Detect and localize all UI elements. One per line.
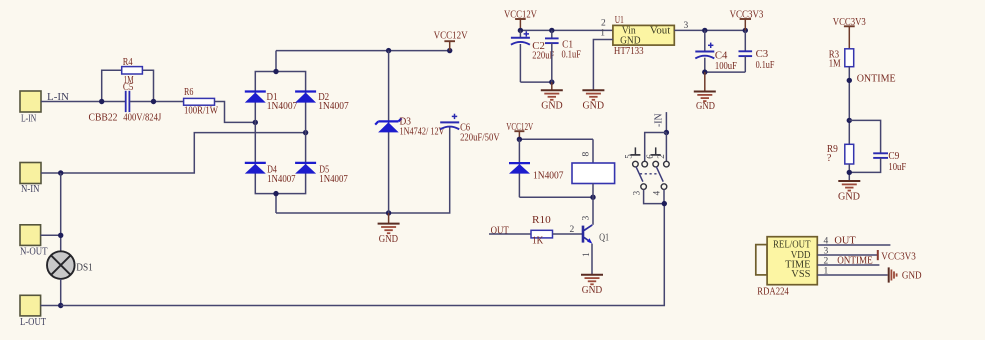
ground at C4 <box>694 72 716 112</box>
junction C1 bottom <box>549 79 554 84</box>
wire D3 branch <box>388 51 390 213</box>
svg-text:L-OUT: L-OUT <box>20 317 46 328</box>
contact circle pin 5 <box>633 161 639 167</box>
svg-text:C5: C5 <box>123 82 133 93</box>
ground at C1 C2 <box>541 82 563 112</box>
wire C9 bottom branch <box>849 158 880 173</box>
junction -IN node <box>664 130 669 135</box>
junction C6 top <box>447 48 452 53</box>
capacitor C1 <box>545 30 581 82</box>
junction bottom bus GND <box>386 210 391 215</box>
wire bottom bus <box>276 127 450 213</box>
wire N-IN to bridge right node <box>41 133 306 173</box>
svg-text:1: 1 <box>824 266 829 276</box>
svg-text:400V/824J: 400V/824J <box>123 113 161 124</box>
svg-text:1N4007: 1N4007 <box>267 101 298 112</box>
svg-text:VSS: VSS <box>791 269 810 280</box>
svg-text:R6: R6 <box>184 87 193 98</box>
wire RDA224 pin 1 VSS <box>817 274 887 276</box>
svg-text:4: 4 <box>824 236 829 246</box>
svg-text:6: 6 <box>645 154 655 159</box>
wire U1 Vout pin 3 <box>674 29 745 31</box>
svg-text:3: 3 <box>632 190 642 195</box>
wire bridge bottom drop <box>275 194 277 213</box>
power VCC12V regulator input <box>504 10 537 31</box>
svg-text:R4: R4 <box>123 57 133 68</box>
contact circle pin 2 <box>664 161 670 167</box>
junction contact common <box>662 201 667 206</box>
svg-text:100R/1W: 100R/1W <box>184 106 218 117</box>
svg-text:RDA224: RDA224 <box>757 287 789 298</box>
wire RDA224 pin 4 OUT <box>817 244 890 246</box>
svg-text:5: 5 <box>624 154 634 159</box>
diode D2 <box>295 92 349 113</box>
wire R9 to ground <box>848 164 850 181</box>
contact circle throw left <box>642 161 648 167</box>
junction bridge bottom <box>273 191 278 196</box>
svg-text:1M: 1M <box>829 59 841 70</box>
svg-text:Q1: Q1 <box>599 233 609 244</box>
wire pin 3 to common <box>644 189 665 203</box>
svg-text:U1: U1 <box>615 15 624 26</box>
wire flyback bottom to coil bottom <box>519 196 593 198</box>
svg-text:2: 2 <box>570 225 575 235</box>
wire lamp to L-OUT node <box>60 279 62 306</box>
junction node A <box>99 99 104 104</box>
wire R4 right riser <box>142 70 153 101</box>
junction C4 bottom <box>702 69 707 74</box>
svg-text:DS1: DS1 <box>76 263 93 274</box>
junction ONTIME <box>847 78 852 83</box>
svg-text:GND: GND <box>541 101 563 112</box>
wire C9 top branch <box>849 120 880 153</box>
lamp DS1 <box>47 251 93 279</box>
capacitor C6 <box>440 114 500 144</box>
svg-text:VCC12V: VCC12V <box>506 122 533 133</box>
junction R9 bottom <box>847 170 852 175</box>
op-amp U1 HT7133 regulator <box>613 15 674 57</box>
svg-text:1N4007: 1N4007 <box>267 174 296 185</box>
resistor R10 <box>531 215 553 246</box>
wire flyback diode branch <box>518 139 520 197</box>
svg-text:GND: GND <box>902 271 922 282</box>
ground at R9 <box>838 181 860 203</box>
diode D5 <box>295 163 348 185</box>
wire C4 bottom to C3 bottom <box>705 71 746 73</box>
power VCC12V top <box>434 31 468 51</box>
svg-text:GND: GND <box>696 101 715 112</box>
svg-text:HT7133: HT7133 <box>614 46 644 57</box>
junction N-IN column <box>58 170 63 175</box>
switch arm left <box>636 167 643 182</box>
power VCC3V3 regulator output <box>730 10 764 31</box>
svg-text:3: 3 <box>582 216 592 221</box>
wire -IN to contact throw right <box>665 133 667 162</box>
svg-text:VCC12V: VCC12V <box>434 31 468 42</box>
wire U1 GND pin 1 <box>593 40 613 91</box>
ground at RDA224 VSS <box>889 267 922 282</box>
wire node A to C5 <box>102 101 126 103</box>
contact circle pin 6 <box>653 161 659 167</box>
svg-text:2: 2 <box>601 19 606 29</box>
wire C2 bottom to C1 bottom <box>520 81 551 83</box>
wire VCC12V top rail <box>276 50 450 52</box>
junction C4 top <box>702 28 707 33</box>
wire bridge top to rail <box>275 51 277 72</box>
junction bridge right AC node <box>303 130 308 135</box>
wire R4 left riser <box>102 70 122 101</box>
svg-text:VCC3V3: VCC3V3 <box>881 252 916 263</box>
diode D1 <box>245 92 297 113</box>
svg-text:0.1uF: 0.1uF <box>562 50 582 61</box>
resistor R9 <box>827 144 854 164</box>
junction node B <box>151 99 156 104</box>
svg-text:10uF: 10uF <box>888 162 906 173</box>
svg-text:1N4007: 1N4007 <box>319 174 348 185</box>
svg-text:220uF/50V: 220uF/50V <box>460 132 500 143</box>
power VCC3V3 at RDA224 <box>878 250 916 263</box>
junction bridge left AC node <box>253 120 258 125</box>
junction D3 top <box>386 48 391 53</box>
svg-text:GND: GND <box>583 101 605 112</box>
port pad L-OUT <box>20 295 46 328</box>
wire OUT to R10 <box>489 233 531 235</box>
svg-text:R10: R10 <box>532 215 551 226</box>
svg-text:1K: 1K <box>532 235 544 246</box>
svg-text:C9: C9 <box>888 151 899 162</box>
svg-text:VCC3V3: VCC3V3 <box>730 10 764 21</box>
wire coil pin 3 to collector <box>592 184 594 225</box>
junction flyback diode top <box>517 137 522 142</box>
svg-text:L-IN: L-IN <box>21 113 37 124</box>
wire coil top rail <box>519 138 593 140</box>
svg-text:GND: GND <box>838 192 860 203</box>
ground at U1 pin 1 <box>582 90 604 111</box>
svg-text:C3: C3 <box>756 49 769 60</box>
wire bottom rail to relay contact <box>61 204 665 306</box>
svg-text:N-IN: N-IN <box>21 184 40 195</box>
diode D4 <box>245 163 296 185</box>
wire -IN to contact throw left <box>645 133 667 162</box>
mechanical link dashes <box>640 173 659 175</box>
wire L-IN pad to node A <box>41 101 102 103</box>
svg-text:1: 1 <box>582 252 592 257</box>
wire -IN stub <box>665 112 667 132</box>
svg-text:N-OUT: N-OUT <box>20 247 48 258</box>
contact circle pin 4 <box>661 184 667 190</box>
svg-text:3: 3 <box>684 21 689 31</box>
junction C2 top <box>518 28 523 33</box>
wire bridge square <box>255 72 305 194</box>
ground at bottom bus <box>378 213 400 245</box>
junction C1 top <box>549 28 554 33</box>
capacitor C5 <box>89 82 162 124</box>
IC RDA224 body <box>757 237 817 298</box>
svg-text:1N4007: 1N4007 <box>318 101 349 112</box>
svg-text:-IN: -IN <box>654 113 665 127</box>
zener diode D3 <box>375 117 445 138</box>
capacitor C4 <box>695 30 737 72</box>
relay coil K1 <box>572 163 615 184</box>
svg-text:0.1uF: 0.1uF <box>756 60 775 71</box>
capacitor C3 <box>739 30 775 72</box>
svg-text:1N4742/ 12V: 1N4742/ 12V <box>400 127 446 138</box>
wire Q1 emitter to ground <box>591 244 593 275</box>
svg-text:100uF: 100uF <box>715 61 737 72</box>
wire R6 to bridge left node <box>215 102 256 123</box>
wire N column down to lamp <box>60 173 62 252</box>
wire VCC12V to U1 Vin <box>520 29 613 31</box>
junction N-OUT <box>58 233 63 238</box>
switch arm right <box>656 167 663 182</box>
resistor R3 <box>829 49 854 70</box>
svg-text:GND: GND <box>379 234 399 245</box>
power VCC3V3 timer <box>833 17 866 49</box>
svg-text:ONTIME: ONTIME <box>857 74 896 85</box>
svg-text:?: ? <box>827 153 832 164</box>
svg-text:Vout: Vout <box>650 26 671 37</box>
ground at Q1 emitter <box>581 275 603 296</box>
svg-text:C4: C4 <box>715 51 728 62</box>
power VCC12V relay coil <box>506 122 533 139</box>
svg-text:1N4007: 1N4007 <box>533 171 564 182</box>
svg-text:2: 2 <box>824 256 829 266</box>
svg-text:OUT: OUT <box>834 235 856 246</box>
wire pin 4 to common <box>663 189 665 203</box>
svg-text:2: 2 <box>656 154 666 159</box>
flyback diode 1N4007 <box>509 163 564 182</box>
svg-text:VCC12V: VCC12V <box>504 10 537 21</box>
svg-text:1: 1 <box>600 29 605 39</box>
junction L-OUT <box>58 303 63 308</box>
svg-text:8: 8 <box>582 152 592 157</box>
junction coil bottom <box>590 195 595 200</box>
pin 6 terminal with bar <box>651 147 661 155</box>
junction C3 top <box>743 28 748 33</box>
transistor Q1 <box>583 225 609 244</box>
svg-text:GND: GND <box>582 285 603 296</box>
port pad L-IN <box>20 91 41 124</box>
junction C9 branch <box>847 118 852 123</box>
wire R10 to base <box>553 233 583 235</box>
svg-text:4: 4 <box>652 190 662 195</box>
pin 5 terminal with bar <box>630 147 640 155</box>
wire RDA224 pin 2 TIME <box>817 264 879 266</box>
wire coil pin 8 <box>592 139 594 163</box>
resistor R6 <box>184 87 219 117</box>
capacitor C2 <box>511 30 555 82</box>
port pad N-IN <box>20 163 41 195</box>
svg-text:ONTIME: ONTIME <box>837 255 873 266</box>
svg-text:VCC3V3: VCC3V3 <box>833 17 866 28</box>
wire N-OUT pad stub <box>41 234 61 236</box>
IC RDA224 tab <box>756 245 767 275</box>
contact circle pin 3 <box>641 184 647 190</box>
capacitor C9 <box>873 151 906 173</box>
wire L-OUT pad stub <box>41 305 61 307</box>
svg-text:CBB22: CBB22 <box>89 113 118 124</box>
wire RDA224 pin 3 VDD <box>817 254 878 256</box>
wire R3 to R9 <box>848 67 850 145</box>
wire C5 to node B to R6 <box>130 101 184 103</box>
junction bridge top <box>273 69 278 74</box>
resistor R4 <box>122 57 143 86</box>
svg-text:3: 3 <box>824 246 829 256</box>
port pad N-OUT <box>20 225 48 258</box>
